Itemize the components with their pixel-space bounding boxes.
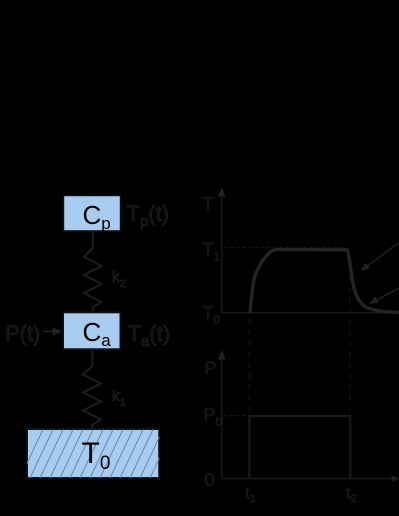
dashed level T1 [224,247,347,249]
wire Cp to k2 [92,231,94,249]
annotation arrow 1 [361,243,399,272]
svg-text:0: 0 [205,470,215,490]
dashed guide t1 [248,320,250,415]
capacitance box Cp [63,195,121,233]
svg-text:T: T [203,194,214,214]
dashed level P0 [224,415,247,417]
ground box T0 (hatched) [20,429,173,478]
T axis (upper plot) [218,188,226,314]
svg-text:P: P [205,359,217,379]
dashed guide t2 [349,255,351,414]
capacitance box Ca [63,312,121,350]
resistor k2 [84,248,102,313]
annotation arrow 2 [369,288,399,304]
baseline T0 (upper plot axis) [222,312,399,314]
svg-text:Tp(t): Tp(t) [127,201,170,230]
arrow P into Ca [43,327,62,335]
power pulse P(t) [249,416,350,478]
P axis (lower plot) [218,350,226,479]
resistor k1 [83,366,101,430]
svg-text:P(t): P(t) [5,321,40,346]
time axis [222,476,399,482]
wire Ca to k1 [91,348,93,367]
temperature response curve [250,250,399,313]
svg-text:Ta(t): Ta(t) [128,321,171,350]
